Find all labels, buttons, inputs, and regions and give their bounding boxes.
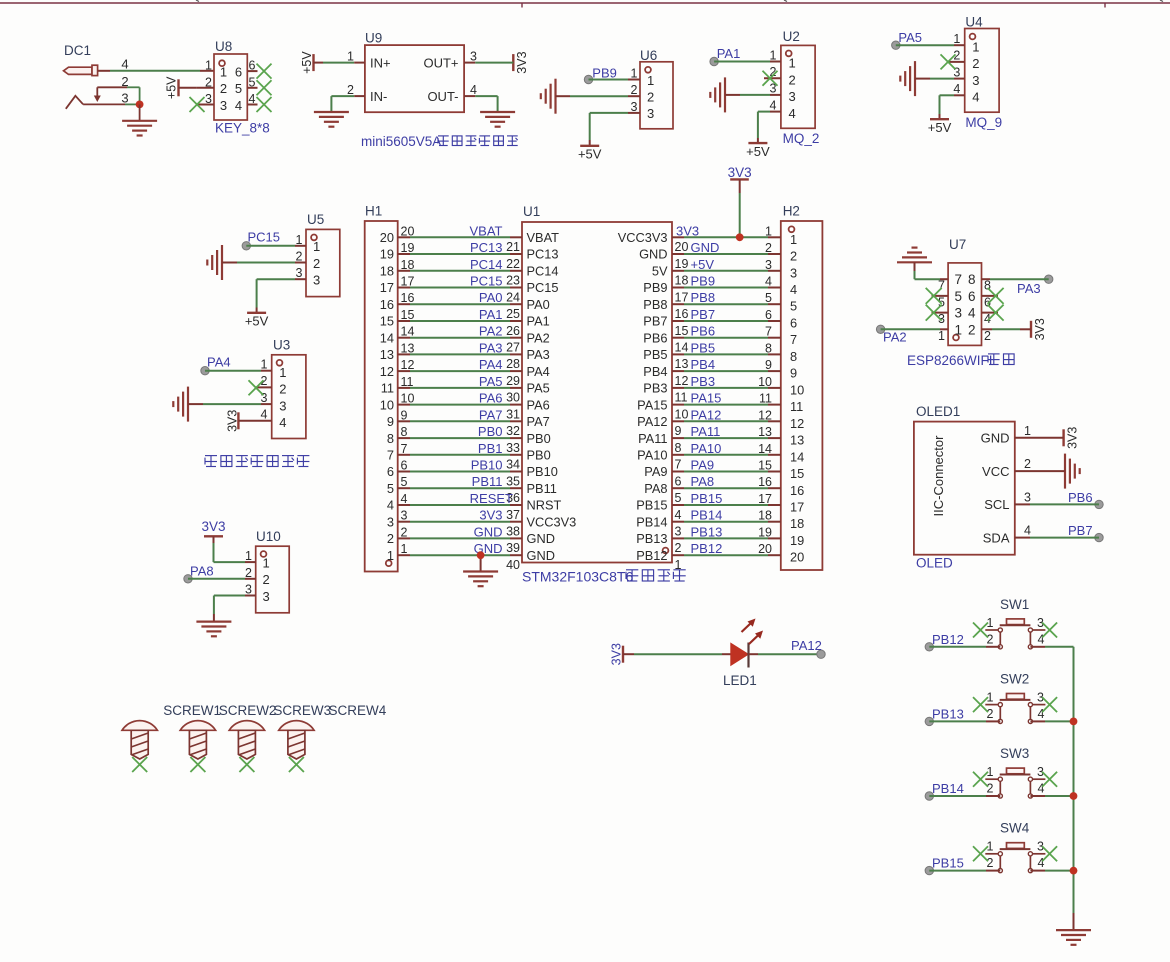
ground below switch bus [1056, 930, 1091, 945]
net label 3V3 (left row 18) [479, 508, 502, 523]
svg-text:1: 1 [765, 224, 772, 238]
svg-text:PA0: PA0 [527, 297, 550, 312]
U1 pin 35 number [506, 474, 520, 488]
U8 internal pin numbers 2 5 [220, 81, 242, 96]
net label PB8 (right row 5) [691, 290, 716, 305]
svg-text:2: 2 [789, 72, 796, 87]
net label PB9 (right row 4) [691, 274, 716, 289]
U1 pin 31 number [506, 407, 520, 421]
no-connect X on U8 pin 5 [257, 80, 272, 95]
svg-text:9: 9 [790, 366, 797, 381]
svg-text:PA0: PA0 [479, 290, 503, 305]
svg-text:9: 9 [765, 358, 772, 372]
U8 pin 1 indicator circle [219, 60, 225, 66]
net label PB15 [932, 856, 964, 871]
U6 pin 1 indicator circle [645, 67, 651, 73]
DC1 pin 3 sleeve contact [66, 96, 83, 109]
wire PB12 U1 to H2 pin 20 [672, 554, 781, 556]
junction GND at U1 pin 40 wire [477, 551, 485, 559]
H2 pin 5 number [765, 291, 772, 305]
wire PB12 to SW1 pin 2 [929, 646, 1000, 648]
svg-text:5: 5 [675, 491, 682, 505]
wire PA6 H1 pin 10 to U1 pin 31 [398, 404, 522, 406]
svg-text:1: 1 [279, 365, 286, 380]
svg-text:8: 8 [387, 431, 394, 446]
svg-text:U8: U8 [215, 39, 232, 54]
header H2 box [781, 221, 823, 570]
switch SW4 button symbol [985, 843, 1045, 873]
wire SW2 pin 4 to bus [1030, 720, 1073, 722]
U7 pin 2 number [984, 329, 991, 343]
svg-text:VCC3V3: VCC3V3 [527, 514, 577, 529]
junction at DC1 ground node [136, 101, 144, 109]
OLED1 pin 3 number [1024, 490, 1031, 504]
U3 internal pin number 2 [279, 382, 286, 397]
svg-text:20: 20 [675, 240, 689, 254]
wire ground to U3 pin 3 [188, 403, 272, 405]
H2 internal pin number 18 [790, 516, 804, 531]
net port PB13 [925, 717, 933, 725]
svg-text:10: 10 [401, 392, 415, 406]
net label +5V (right row 3) [691, 257, 715, 272]
net label PC15 [248, 229, 281, 244]
wire RESET H1 pin 4 to U1 pin 37 [398, 504, 522, 506]
svg-text:PC15: PC15 [527, 280, 559, 295]
svg-text:20: 20 [380, 230, 394, 245]
wire PA4 to U3 pin 1 [205, 370, 272, 372]
svg-text:4: 4 [387, 498, 394, 513]
H2 internal pin number 15 [790, 466, 804, 481]
net label PB15 (right row 17) [691, 491, 723, 506]
U1 pin name PB9 (right row 4) [643, 280, 667, 295]
svg-text:1: 1 [401, 542, 408, 556]
U9 pin 1 number [347, 49, 354, 63]
H2 internal pin number 7 [790, 332, 797, 347]
svg-text:19: 19 [675, 257, 689, 271]
svg-text:2: 2 [972, 56, 979, 71]
module U7 designator [949, 237, 966, 252]
svg-text:PA2: PA2 [479, 324, 503, 339]
U3 internal pin number 3 [279, 398, 286, 413]
svg-text:11: 11 [381, 381, 394, 396]
U7 pin 4 stub [982, 312, 999, 314]
ground below DC1 [122, 121, 157, 136]
header H2 designator [783, 204, 800, 219]
U10 pin 1 number [245, 549, 252, 563]
net label PB14 (right row 18) [691, 508, 723, 523]
U1 pin 38 number [506, 525, 520, 539]
wire PA2 H1 pin 14 to U1 pin 27 [398, 337, 522, 339]
wire PA15 U1 to H2 pin 11 [672, 404, 781, 406]
H2 pin 13 number [758, 425, 772, 439]
svg-text:7: 7 [675, 458, 682, 472]
U3 internal pin number 1 [279, 365, 286, 380]
svg-text:PA12: PA12 [637, 414, 667, 429]
svg-text:PB9: PB9 [691, 274, 716, 289]
SW4 pin 4 number [1038, 856, 1045, 870]
U1 pin 4 number (right) [675, 508, 682, 522]
svg-text:4: 4 [470, 83, 477, 97]
H2 pin 17 number [758, 492, 772, 506]
svg-text:GND: GND [981, 431, 1010, 446]
U1 pin 6 number (right) [675, 474, 682, 488]
net label PB11 (left row 16) [472, 474, 503, 489]
svg-text:29: 29 [506, 374, 520, 388]
U7 pin 6 stub [982, 295, 999, 297]
svg-text:9: 9 [401, 408, 408, 422]
U1 pin 17 number (right) [675, 290, 689, 304]
svg-text:7: 7 [387, 448, 394, 463]
svg-text:PA10: PA10 [691, 441, 722, 456]
net label PB12 [932, 632, 964, 647]
svg-text:4: 4 [1038, 782, 1045, 796]
H1 internal pin number 13 [380, 347, 394, 362]
no-connect X on SW1 pin 3 [1042, 623, 1057, 638]
U1 pin name PB7 (right row 6) [643, 314, 667, 329]
wire PC13 H1 pin 19 to U1 pin 22 [398, 253, 522, 255]
svg-text:4: 4 [972, 90, 979, 105]
svg-text:+5V: +5V [928, 120, 952, 135]
switch SW3 designator [1000, 746, 1029, 761]
H1 pin 13 number [401, 341, 415, 355]
svg-text:10: 10 [675, 407, 689, 421]
svg-text:16: 16 [758, 475, 772, 489]
net label 3V3 (right row 1) [676, 223, 699, 238]
wire U6 pin 3 to +5V [590, 113, 640, 146]
net label PC14 (left row 3) [470, 257, 503, 272]
connector U2 designator [783, 29, 800, 44]
svg-text:U1: U1 [523, 204, 540, 219]
U1 pin 39 number [506, 541, 520, 555]
wire PB14 U1 to H2 pin 18 [672, 521, 781, 523]
SW3 pin 3 number [1037, 765, 1044, 779]
svg-text:6: 6 [765, 308, 772, 322]
U10 internal pin number 3 [263, 589, 270, 604]
U4 pin 1 indicator circle [970, 34, 976, 40]
switch SW2 designator [1000, 671, 1029, 686]
H1 pin 14 number [401, 325, 415, 339]
net label PB9 [592, 66, 617, 81]
svg-text:PB14: PB14 [932, 781, 964, 796]
svg-text:PB15: PB15 [691, 491, 723, 506]
U5 internal pin number 1 [313, 239, 320, 254]
svg-text:2: 2 [987, 707, 994, 721]
connector U10 box [256, 546, 290, 613]
U7 pin 7 number [938, 279, 945, 293]
svg-text:3: 3 [972, 73, 979, 88]
svg-text:19: 19 [380, 247, 394, 262]
H1 internal pin number 7 [387, 448, 394, 463]
svg-text:4: 4 [279, 415, 286, 430]
U1 pin 2 number (right) [675, 541, 682, 555]
svg-text:PB3: PB3 [643, 381, 667, 396]
svg-text:1: 1 [313, 239, 320, 254]
svg-text:PA8: PA8 [190, 563, 214, 578]
+5V power flag at U8 pin 2 [165, 76, 197, 99]
svg-text:13: 13 [758, 425, 772, 439]
H2 internal pin number 10 [790, 382, 804, 397]
svg-text:4: 4 [1024, 524, 1031, 538]
U10 pin 1 indicator circle [261, 551, 267, 557]
net label GND (right row 2) [691, 240, 720, 255]
U1 pin name PA8 (right row 16) [644, 481, 667, 496]
svg-text:5: 5 [235, 81, 242, 96]
U8 pin 1 number [205, 59, 212, 73]
H1 pin 15 number [401, 308, 415, 322]
net label PA1 (left row 6) [479, 307, 503, 322]
svg-text:MQ_9: MQ_9 [965, 115, 1002, 130]
svg-text:PA7: PA7 [527, 414, 550, 429]
svg-text:4: 4 [770, 98, 777, 112]
+5V power flag below U6 [578, 146, 602, 162]
U1 pin name PA6 (pin 31) [527, 397, 550, 412]
U6 pin 3 number [631, 100, 638, 114]
svg-text:14: 14 [790, 449, 804, 464]
U1 pin 22 number [506, 257, 520, 271]
net label PA3 [1017, 281, 1041, 296]
U7 pin 8 number [984, 279, 991, 293]
svg-text:17: 17 [675, 290, 689, 304]
svg-text:3: 3 [263, 589, 270, 604]
switch SW3 button symbol [985, 768, 1045, 798]
svg-text:U4: U4 [965, 15, 983, 30]
U5 pin 1 number [296, 233, 303, 247]
no-connect X on U4 pin 2 [941, 54, 956, 69]
svg-text:6: 6 [968, 289, 976, 304]
net label VBAT (left row 1) [470, 223, 503, 238]
wire U9 pin 4 to ground [464, 96, 498, 112]
wire ground to U5 pin 2 [222, 262, 306, 264]
header H1 designator [365, 204, 382, 219]
svg-text:PB14: PB14 [691, 508, 723, 523]
H2 pin 12 number [758, 408, 772, 422]
H1 pin 2 number [401, 525, 408, 539]
screw SCREW2 designator [219, 703, 277, 718]
wire LED1 cathode to PA12 [749, 653, 822, 655]
svg-text:MQ_2: MQ_2 [783, 131, 820, 146]
U1 pin 40 number [506, 558, 520, 572]
svg-text:3: 3 [401, 509, 408, 523]
U7 pin 5 number [938, 295, 945, 309]
H2 internal pin number 8 [790, 349, 797, 364]
connector U6 box [640, 62, 673, 129]
H2 internal pin number 1 [790, 232, 797, 247]
H2 pin 18 number [758, 509, 772, 523]
U9 pin 3 number [470, 49, 477, 63]
H2 pin 19 number [758, 525, 772, 539]
U1 pin name 5V (right row 3) [652, 264, 668, 279]
U6 pin 1 number [631, 67, 638, 81]
svg-text:+5V: +5V [746, 144, 770, 159]
U1 pin name PB5 (right row 8) [643, 347, 667, 362]
junction SW3 on bus [1070, 792, 1078, 800]
U1 pin 29 number [506, 374, 520, 388]
U9 pin name OUT- [427, 89, 458, 104]
wire PB15 U1 to H2 pin 17 [672, 504, 781, 506]
wire PB9 to U6 pin 1 [589, 79, 641, 81]
svg-text:PB10: PB10 [471, 458, 503, 473]
svg-text:OLED1: OLED1 [916, 404, 960, 419]
svg-text:U6: U6 [640, 48, 657, 63]
svg-text:1: 1 [770, 48, 777, 62]
svg-text:U2: U2 [783, 29, 800, 44]
svg-text:PB5: PB5 [691, 340, 716, 355]
ground below U1 [463, 572, 498, 587]
svg-text:12: 12 [380, 364, 394, 379]
switch SW1 designator [1000, 597, 1029, 612]
svg-text:H1: H1 [365, 204, 382, 219]
wire DC1 pin 4 to U8 pin 1 [98, 70, 214, 72]
svg-text:GND: GND [691, 240, 720, 255]
U1 pin name PA7 (pin 32) [527, 414, 550, 429]
module U7 box [948, 263, 981, 346]
U8 right pin 4 stub [247, 104, 257, 106]
H1 internal pin number 2 [387, 531, 394, 546]
U10 pin 3 number [245, 583, 252, 597]
no-connect X on SW4 pin 3 [1042, 846, 1057, 861]
H1 pin 16 number [401, 291, 415, 305]
H1 pin 11 number [401, 375, 414, 389]
H2 internal pin number 17 [790, 500, 804, 515]
svg-text:PB4: PB4 [643, 364, 667, 379]
svg-text:3: 3 [631, 100, 638, 114]
svg-text:3: 3 [387, 514, 394, 529]
net port PA2 [876, 325, 884, 333]
wire U9 pin 3 to 3V3 [464, 62, 513, 64]
U3 pin 1 indicator circle [277, 360, 283, 366]
H2 pin 14 number [758, 442, 772, 456]
H1 internal pin number 5 [387, 481, 394, 496]
U4 pin 2 stub [948, 61, 965, 63]
U6 internal pin number 2 [647, 90, 654, 105]
svg-text:4: 4 [953, 82, 960, 96]
H2 pin 9 number [765, 358, 772, 372]
svg-text:30: 30 [506, 391, 520, 405]
connector U5 box [306, 229, 340, 296]
U1 pin 3 number (right) [675, 525, 682, 539]
wire PC15 H1 pin 17 to U1 pin 24 [398, 287, 522, 289]
svg-text:24: 24 [506, 290, 520, 304]
U2 pin 2 number [770, 65, 777, 79]
svg-text:11: 11 [401, 375, 414, 389]
svg-text:6: 6 [387, 464, 394, 479]
U9 pin name IN+ [370, 55, 391, 70]
no-connect X on U7 pin 4 [988, 305, 1004, 321]
U5 pin 2 number [296, 250, 303, 264]
wire PB0 H1 pin 8 to U1 pin 33 [398, 437, 522, 439]
svg-text:26: 26 [506, 324, 520, 338]
svg-text:3V3: 3V3 [1033, 318, 1047, 340]
H1 internal pin number 17 [380, 280, 394, 295]
wire PA1 to U2 pin 1 [714, 61, 781, 63]
U1 value label STM32F103C8T6 minimal system [522, 569, 686, 585]
U1 pin name PB15 (right row 17) [636, 498, 667, 513]
svg-text:NRST: NRST [527, 498, 562, 513]
svg-text:PB9: PB9 [643, 280, 667, 295]
svg-text:33: 33 [506, 441, 520, 455]
svg-text:U9: U9 [365, 31, 382, 46]
svg-text:8: 8 [765, 341, 772, 355]
svg-text:15: 15 [380, 314, 394, 329]
no-connect X on U3 pin 2 [249, 380, 264, 395]
svg-text:2: 2 [387, 531, 394, 546]
U1 pin name VCC3V3 (pin 38) [527, 514, 577, 529]
svg-text:PA15: PA15 [691, 391, 722, 406]
wire 3V3 flag to junction [739, 179, 741, 237]
svg-text:4: 4 [121, 57, 128, 72]
wire VBAT H1 pin 20 to U1 pin 21 [398, 236, 522, 238]
svg-text:PB11: PB11 [527, 481, 557, 496]
U1 pin 14 number (right) [675, 341, 689, 355]
svg-text:PB13: PB13 [691, 524, 723, 539]
svg-text:5: 5 [954, 289, 962, 304]
svg-text:SCREW4: SCREW4 [329, 703, 387, 718]
U1 pin 19 number (right) [675, 257, 689, 271]
svg-text:2: 2 [765, 241, 772, 255]
svg-text:4: 4 [235, 98, 242, 113]
U10 pin 2 number [245, 566, 252, 580]
svg-text:3: 3 [470, 49, 477, 63]
svg-text:17: 17 [401, 275, 415, 289]
svg-text:H2: H2 [783, 204, 800, 219]
svg-text:PA1: PA1 [717, 46, 741, 61]
screw SCREW1 symbol [122, 721, 157, 759]
U5 pin 1 indicator circle [311, 235, 317, 241]
OLED1 pin 1 number [1024, 424, 1031, 438]
U2 pin 3 number [770, 82, 777, 96]
U1 pin 8 number (right) [675, 441, 682, 455]
svg-text:3: 3 [121, 91, 128, 106]
svg-text:1: 1 [387, 548, 394, 563]
svg-text:14: 14 [758, 442, 772, 456]
U1 pin name PA0 (pin 25) [527, 297, 550, 312]
svg-text:11: 11 [759, 392, 772, 406]
svg-text:19: 19 [401, 241, 415, 255]
net label PA1 [717, 46, 741, 61]
3V3 power flag at U3 pin 4 [226, 410, 240, 432]
svg-text:17: 17 [790, 500, 804, 515]
U1 pin 9 number (right) [675, 424, 682, 438]
net label PB0 (left row 13) [478, 424, 503, 439]
U1 pin 28 number [506, 357, 520, 371]
U4 internal pin number 4 [972, 90, 979, 105]
svg-text:PA6: PA6 [479, 391, 503, 406]
svg-text:40: 40 [506, 558, 520, 572]
U9 value label mini5605V5A output power module [361, 134, 518, 149]
U1 pin 15 number (right) [675, 324, 689, 338]
svg-text:17: 17 [380, 280, 394, 295]
svg-text:5: 5 [401, 475, 408, 489]
H2 internal pin number 11 [790, 399, 803, 414]
svg-text:PC15: PC15 [470, 274, 503, 289]
svg-text:PA12: PA12 [791, 638, 822, 653]
wire PB5 U1 to H2 pin 8 [672, 353, 781, 355]
wire ground to U6 pin 2 [556, 95, 641, 97]
U1 pin name PA15 (right row 11) [637, 397, 667, 412]
U7 pin 1 indicator circle [953, 335, 959, 341]
no-connect X on U7 pin 6 [988, 288, 1004, 304]
U9 pin name IN- [370, 89, 387, 104]
U2 pin 4 number [770, 98, 777, 112]
svg-text:STM32F103C8T6: STM32F103C8T6 [522, 569, 633, 585]
svg-text:PA12: PA12 [691, 407, 722, 422]
ground at U4 pin 3 [900, 61, 915, 96]
net label PB12 (right row 20) [691, 541, 723, 556]
svg-text:PA5: PA5 [527, 381, 550, 396]
svg-text:IN-: IN- [370, 89, 387, 104]
svg-text:17: 17 [758, 492, 772, 506]
svg-text:16: 16 [675, 307, 689, 321]
